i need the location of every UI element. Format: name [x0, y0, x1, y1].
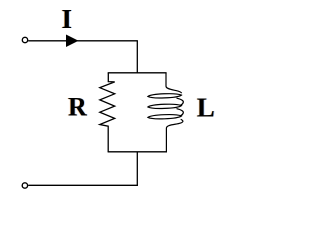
wire: vertical drop from top wire to parallel-network top bus [136, 41, 138, 74]
inductor L coil loop 2 [148, 104, 182, 108]
terminal: top-left input port [22, 37, 27, 42]
label R (resistor) [68, 93, 87, 122]
inductor L crossover 1-2 [177, 98, 184, 105]
inductor L entry lead (right branch, from top bus into coil) [166, 73, 182, 93]
inductor L crossover 2-3 [177, 109, 184, 116]
label I (current) [62, 4, 73, 34]
inductor L coil loop 3 [148, 115, 182, 119]
svg-text:R: R [68, 93, 87, 122]
wire: vertical from bottom bus down to bottom wire [136, 152, 138, 186]
svg-text:L: L [197, 93, 215, 123]
wire: top horizontal from input terminal to node [28, 40, 138, 42]
wire: bottom bus of parallel RL network [108, 151, 167, 153]
svg-text:I: I [62, 4, 73, 34]
wire: top bus of parallel RL network [108, 72, 167, 74]
inductor L exit lead (from coil down to bottom bus) [166, 119, 183, 152]
current arrow (direction of I) [66, 35, 79, 48]
label L (inductor) [197, 93, 215, 123]
terminal: bottom-left output port [22, 183, 27, 188]
wire: bottom horizontal from node to output terminal [28, 184, 138, 186]
resistor R (zigzag, left branch) [100, 73, 115, 153]
inductor L coil loop 1 [148, 94, 182, 98]
